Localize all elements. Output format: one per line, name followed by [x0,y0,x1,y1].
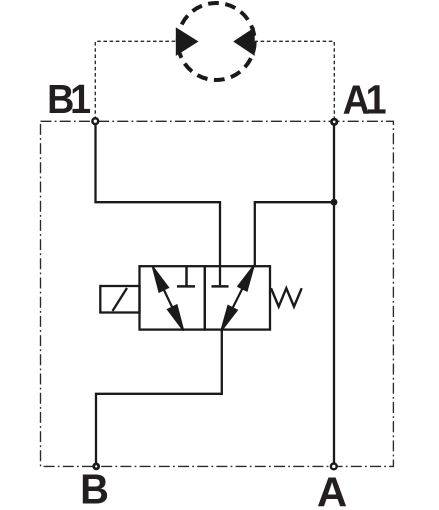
wire B1 node to valve blocked port [96,122,221,286]
valve V1 right cell blocked port T [212,285,229,288]
motor M1 drain dashed line right [255,41,334,120]
solenoid diagonal [113,288,128,311]
solenoid actuator [100,286,139,313]
motor M1 left arrowhead [176,27,199,56]
motor M1 drain dashed line left [95,41,177,120]
valve V1 left cell blocked port T [177,266,195,286]
svg-text:A: A [317,469,347,510]
junction node on A line [331,199,338,206]
valve V1 left cell arrowhead down [167,304,185,331]
wire junction branch to valve arrow port [255,202,334,266]
port node A1 [332,119,337,124]
valve V1 body left cell [140,266,205,329]
valve V1 left cell flow arrow shaft [164,289,173,308]
port node B1 [92,118,98,124]
port node A [331,464,337,470]
svg-text:B1: B1 [47,77,90,123]
enclosure boundary (dash-dot box) [41,121,394,466]
svg-text:A1: A1 [343,77,386,123]
valve V1 left cell arrowhead up [152,266,170,293]
svg-text:B: B [80,466,109,510]
valve V1 right cell flow arrow shaft [232,288,242,309]
return spring [271,288,302,306]
valve V1 body right cell [205,266,270,329]
valve V1 right cell arrowhead down [220,305,238,332]
motor M1 right arrowhead [233,27,255,56]
wire A1 node down to port A [333,122,335,467]
valve V1 right cell arrowhead up [237,265,255,292]
motor M1 (dashed circle) [178,3,255,80]
wire valve bottom to port B [96,330,222,467]
port node B [94,464,99,469]
